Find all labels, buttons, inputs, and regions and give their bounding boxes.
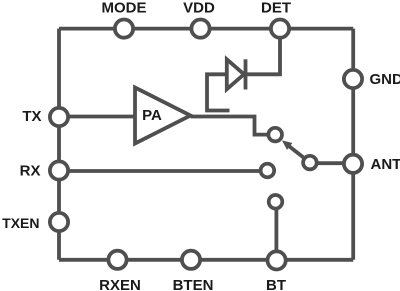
svg-text:TXEN: TXEN [2, 215, 39, 231]
pin MODE circle [115, 20, 133, 38]
diode D1 [227, 59, 244, 89]
svg-text:RX: RX [20, 163, 41, 180]
wire: RX to switch throw [59, 169, 261, 173]
svg-text:GND: GND [370, 71, 400, 88]
pin BTEN circle [182, 251, 200, 269]
svg-text:VDD: VDD [183, 0, 215, 16]
svg-text:TX: TX [22, 108, 41, 125]
pin ANT circle [344, 155, 362, 173]
wire: left edge of block [57, 29, 61, 260]
wire: switch arm [289, 146, 305, 158]
wire: switch common to ANT [316, 161, 343, 165]
wire: right edge of block [351, 29, 355, 260]
op-amp PA (amplifier triangle) [135, 88, 191, 144]
wire: top edge of block [59, 27, 353, 31]
pin GND circle [344, 70, 362, 88]
svg-text:DET: DET [261, 0, 291, 16]
pin RXEN circle [108, 251, 126, 269]
svg-text:PA: PA [142, 107, 162, 124]
diode D1 cathode bar [244, 59, 248, 89]
wire: BT pin up to switch throw [274, 210, 278, 252]
wire: coupler tap to diode anode [207, 74, 230, 110]
pin TX circle [50, 108, 68, 126]
pin DET circle [271, 20, 289, 38]
switch throw contact (BT path) [269, 195, 283, 209]
wire: PA output to TX switch throw [191, 117, 268, 135]
wire: diode cathode to DET pin [246, 37, 281, 74]
pin TXEN circle [50, 213, 68, 231]
pin RX circle [50, 161, 68, 179]
switch throw contact (RX path) [261, 164, 275, 178]
svg-text:BTEN: BTEN [173, 277, 214, 291]
wire: TX to PA input [59, 115, 136, 119]
svg-text:MODE: MODE [102, 0, 147, 16]
svg-text:ANT: ANT [371, 156, 400, 173]
switch arm arrowhead [282, 140, 292, 150]
pin BT circle [268, 251, 286, 269]
switch common contact [303, 156, 317, 170]
svg-text:BT: BT [266, 277, 286, 291]
wire: bottom edge of block [59, 258, 353, 262]
pin VDD circle [191, 20, 209, 38]
switch throw contact (TX path) [268, 128, 282, 142]
svg-text:RXEN: RXEN [99, 277, 141, 291]
